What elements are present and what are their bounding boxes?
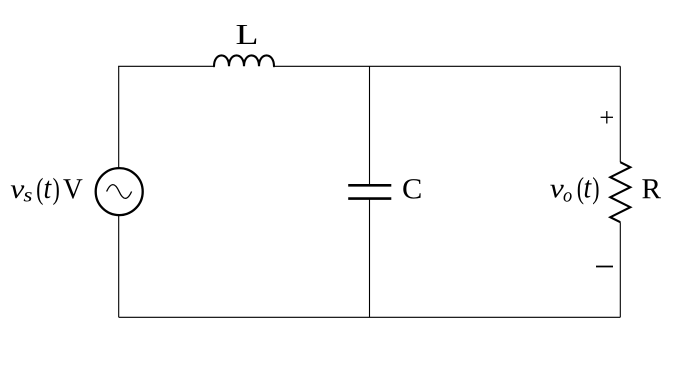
label C bbox=[403, 179, 420, 198]
resistor R bbox=[610, 162, 630, 222]
wire: top horizontal (inductor to top-right corner) bbox=[274, 65, 620, 67]
minus polarity mark bbox=[596, 266, 613, 268]
capacitor C bbox=[348, 185, 391, 198]
plus polarity mark bbox=[601, 111, 613, 123]
sine symbol inside source bbox=[107, 185, 132, 199]
voltage source circle bbox=[96, 168, 143, 215]
wire: right vertical upper (top-right corner to resistor) bbox=[619, 66, 621, 162]
wire: middle vertical lower (capacitor to bottom) bbox=[369, 199, 371, 318]
label vs(t)V bbox=[11, 178, 83, 205]
wire: left vertical lower (source bottom to bottom-left corner) bbox=[118, 215, 120, 317]
wire: top-left horizontal (top-left corner to inductor) bbox=[118, 65, 214, 67]
wire: right vertical lower (resistor to bottom-right corner) bbox=[619, 222, 621, 317]
label L bbox=[237, 25, 257, 44]
wire: bottom horizontal bbox=[119, 316, 621, 318]
label R bbox=[642, 179, 661, 198]
inductor L bbox=[214, 55, 274, 66]
label vo(t) bbox=[550, 177, 598, 204]
wire: middle vertical upper (to capacitor) bbox=[369, 66, 371, 185]
wire: left vertical upper (source top to top-left corner) bbox=[118, 66, 120, 168]
